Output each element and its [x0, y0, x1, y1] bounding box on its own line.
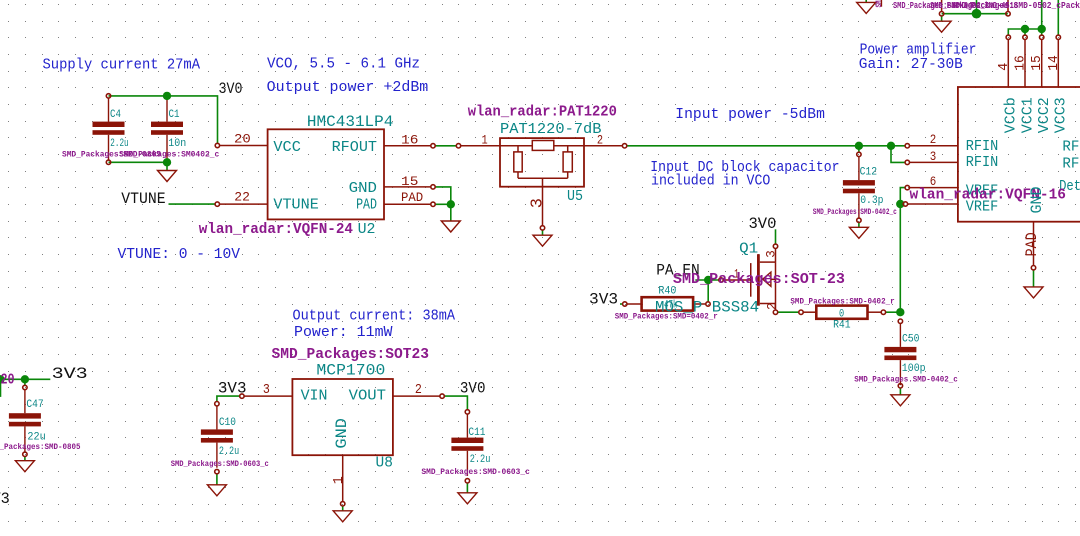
svg-text:RF: RF: [1062, 156, 1079, 173]
svg-text:15: 15: [401, 174, 418, 189]
svg-text:GND: GND: [333, 418, 351, 449]
svg-text:1: 1: [482, 133, 488, 148]
svg-text:SM: SM: [875, 0, 884, 7]
svg-text:47k: 47k: [664, 299, 678, 311]
svg-text:2: 2: [597, 133, 603, 148]
svg-text:3V0: 3V0: [749, 215, 777, 233]
svg-text:22u: 22u: [27, 432, 45, 444]
svg-text:C10: C10: [219, 417, 236, 429]
svg-text:Input power -5dBm: Input power -5dBm: [675, 107, 825, 123]
svg-text:VCO, 5.5 - 6.1 GHz: VCO, 5.5 - 6.1 GHz: [267, 57, 420, 73]
svg-text:GND: GND: [1028, 187, 1046, 214]
svg-text:HMC431LP4: HMC431LP4: [307, 113, 394, 131]
svg-text:2.2u: 2.2u: [470, 454, 491, 466]
svg-text:20: 20: [1, 372, 15, 389]
svg-text:3: 3: [930, 149, 937, 164]
svg-text:15: 15: [1029, 55, 1045, 71]
svg-text:Output current: 38mA: Output current: 38mA: [293, 309, 456, 325]
svg-text:MCP1700: MCP1700: [316, 361, 385, 379]
svg-text:0.3p: 0.3p: [860, 195, 883, 207]
svg-text:16: 16: [1013, 55, 1029, 71]
svg-text:R41: R41: [833, 319, 851, 331]
svg-text:2: 2: [415, 382, 422, 398]
svg-text:22: 22: [234, 189, 250, 204]
svg-text:1: 1: [331, 476, 347, 484]
svg-text:VCCb: VCCb: [1003, 97, 1020, 133]
svg-text:16: 16: [401, 133, 418, 148]
svg-text:SMD_Packages:SMD-0502_cPack: SMD_Packages:SMD-0502_cPack: [952, 1, 1080, 11]
svg-text:PAD: PAD: [401, 190, 423, 205]
svg-text:PAT1220-7dB: PAT1220-7dB: [500, 121, 602, 138]
svg-text:2.2u: 2.2u: [110, 138, 128, 150]
svg-text:14: 14: [1046, 55, 1062, 71]
svg-text:3V3: 3V3: [589, 291, 618, 309]
svg-text:SMD_Packages.SMD-0402_c: SMD_Packages.SMD-0402_c: [854, 376, 958, 385]
svg-text:SMD_Packages:SMD-0402_c: SMD_Packages:SMD-0402_c: [813, 208, 897, 217]
svg-text:VTUNE: 0 - 10V: VTUNE: 0 - 10V: [118, 247, 241, 263]
svg-text:Gain: 27-30B: Gain: 27-30B: [859, 57, 963, 73]
svg-text:VCC2: VCC2: [1036, 97, 1053, 133]
svg-text:Q1: Q1: [739, 240, 758, 257]
svg-text:SMD_Packages:SMD-0402_r: SMD_Packages:SMD-0402_r: [790, 297, 894, 306]
svg-text:VTUNE: VTUNE: [121, 190, 165, 208]
svg-text:VIN: VIN: [301, 387, 328, 404]
svg-text:U5: U5: [567, 188, 583, 205]
svg-text:VCC1: VCC1: [1019, 97, 1036, 133]
svg-text:3V0: 3V0: [219, 80, 243, 98]
svg-text:3V3: 3V3: [52, 365, 88, 383]
svg-text:RFOUT: RFOUT: [332, 139, 377, 156]
svg-text:C1: C1: [169, 109, 180, 121]
svg-text:SMD_Packages:SMD=0402_r: SMD_Packages:SMD=0402_r: [615, 312, 718, 321]
svg-text:C12: C12: [860, 167, 878, 179]
svg-text:20: 20: [234, 132, 251, 147]
svg-text:2: 2: [930, 132, 937, 147]
svg-text:3V0: 3V0: [460, 380, 486, 398]
svg-text:C50: C50: [902, 334, 920, 346]
svg-text:Power: 11mW: Power: 11mW: [294, 325, 393, 341]
svg-text:PAD: PAD: [1023, 232, 1041, 256]
svg-text:C47: C47: [26, 399, 43, 411]
svg-text:PAD: PAD: [356, 196, 377, 213]
svg-text:3: 3: [529, 198, 548, 208]
svg-text:VCC: VCC: [273, 139, 301, 156]
svg-text:4: 4: [996, 63, 1012, 71]
svg-text:RF: RF: [1062, 139, 1079, 156]
svg-text:2.2u: 2.2u: [219, 446, 239, 458]
svg-text:100p: 100p: [902, 363, 926, 375]
svg-text:10n: 10n: [168, 138, 186, 150]
svg-text:VTUNE: VTUNE: [273, 196, 318, 213]
svg-text:RFIN: RFIN: [966, 154, 999, 171]
svg-text:Output power +2dBm: Output power +2dBm: [267, 80, 429, 96]
svg-text:C11: C11: [468, 427, 485, 439]
svg-text:VCC3: VCC3: [1053, 97, 1070, 133]
svg-text:3V3: 3V3: [218, 380, 247, 398]
svg-text:V3: V3: [0, 490, 10, 508]
svg-text:SMD_Packages:SM0402_c: SMD_Packages:SM0402_c: [119, 150, 219, 159]
svg-text:3: 3: [764, 250, 778, 258]
svg-text:R40: R40: [658, 286, 676, 298]
svg-text:U8: U8: [376, 455, 393, 472]
svg-text:Power amplifier: Power amplifier: [860, 42, 977, 58]
svg-text:GND: GND: [349, 180, 377, 197]
svg-text:2: 2: [766, 302, 780, 310]
svg-text:3: 3: [263, 382, 270, 398]
svg-text:RFIN: RFIN: [966, 138, 999, 155]
svg-text:SMD_Packages:SMD-0603_c: SMD_Packages:SMD-0603_c: [171, 460, 269, 469]
svg-text:C4: C4: [110, 109, 121, 121]
svg-text:included in VCO: included in VCO: [651, 174, 770, 190]
svg-text:U2: U2: [358, 221, 376, 238]
svg-text:SMD_Packages:SMD-0805: SMD_Packages:SMD-0805: [0, 443, 81, 452]
svg-text:wlan_radar:PAT1220: wlan_radar:PAT1220: [468, 103, 617, 120]
svg-text:wlan_radar:VQFN-24: wlan_radar:VQFN-24: [199, 221, 353, 238]
svg-text:SMD_Packages:SOT-23: SMD_Packages:SOT-23: [673, 271, 845, 288]
svg-text:VOUT: VOUT: [349, 387, 386, 404]
svg-text:Supply current 27mA: Supply current 27mA: [43, 57, 201, 73]
svg-text:SMD_Packages:SMD-0603_c: SMD_Packages:SMD-0603_c: [421, 468, 530, 477]
